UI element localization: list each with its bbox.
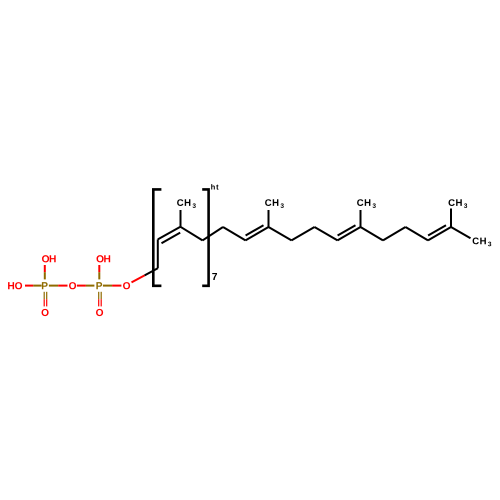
atom Obridge (bridging oxygen) — [69, 282, 76, 289]
bond P1-Obridge — [49, 285, 68, 287]
closing square bracket — [202, 189, 208, 285]
double bond P1=O — [44, 292, 47, 307]
bond Obridge-P2 — [77, 285, 95, 287]
bond P1-OH vertical — [44, 265, 46, 279]
atom label OH above P1 — [42, 255, 56, 262]
superscript ht on closing bracket — [211, 184, 218, 190]
atom P1 (phosphorus) — [42, 282, 48, 289]
atom P2 (phosphorus) — [96, 282, 102, 289]
atom label CH3 on C7 — [265, 199, 284, 208]
bond C9-C10 — [315, 227, 338, 240]
bond C8-C9 — [292, 227, 315, 240]
bond C5-C6 — [223, 227, 246, 240]
bond P2-OH vertical — [98, 265, 100, 279]
bond HO-P1 — [25, 285, 42, 287]
double bond C6=C7 (trans) — [246, 225, 269, 240]
opening square bracket — [153, 189, 161, 285]
bond C3-C4 — [181, 227, 203, 241]
atom label CH3 on C15 upper — [448, 199, 467, 208]
double bond C14=C15 (terminal prenyl) — [428, 225, 451, 240]
bond C12-C13 — [383, 227, 406, 240]
bond C15-CH3 methyl stub right — [451, 227, 471, 238]
atom label O double-bonded below P2 — [96, 309, 103, 316]
atom label HO (terminal hydroxyl on P1) — [8, 282, 22, 289]
bond C15-CH3 methyl stub up — [450, 209, 452, 228]
bond C7-CH3 methyl stub — [268, 210, 270, 227]
atom label O double-bonded below P1 — [42, 309, 49, 316]
double bond C2=C3 (cis, repeat unit) — [158, 227, 181, 243]
bond C13-C14 — [406, 227, 429, 240]
atom label CH3 on C3 — [177, 199, 196, 208]
bond P2-Oester — [103, 285, 122, 287]
subscript 7 repeat count — [212, 273, 217, 280]
bond C1-C2 vertical — [157, 239, 159, 268]
atom label CH3 on C15 right — [473, 238, 492, 247]
atom label OH above P2 — [97, 255, 111, 262]
bond C11-C12 — [361, 227, 384, 240]
bond C3-CH3 methyl stub — [180, 210, 182, 227]
bond C11-CH3 methyl stub — [360, 210, 362, 227]
atom label CH3 on C11 — [357, 199, 376, 208]
atom Oester (ester oxygen to chain) — [123, 282, 130, 289]
double bond P2=O — [99, 292, 102, 307]
double bond C10=C11 (trans) — [338, 225, 361, 240]
bond C4-C5 exits bracket — [203, 227, 224, 240]
bond C7-C8 — [269, 227, 292, 240]
bond Oester-C1 (half red half black) — [132, 268, 158, 282]
